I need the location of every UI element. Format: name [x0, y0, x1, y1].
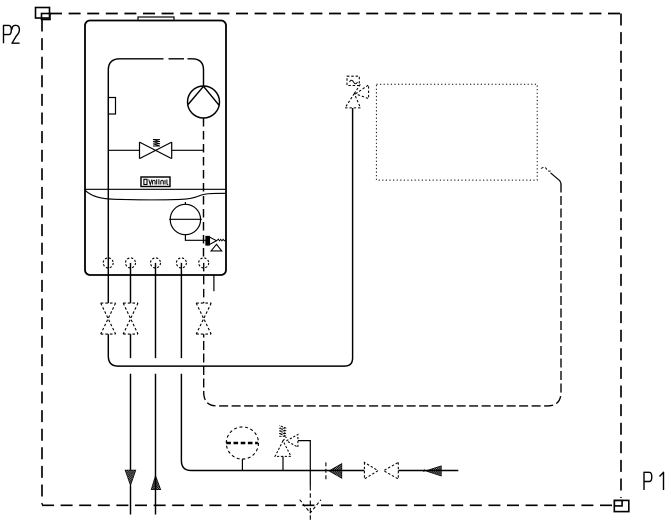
filling loop pump (dashed circle) — [226, 427, 258, 471]
internal safety valve piping — [185, 235, 207, 241]
shutoff valve on water feed (dashed bowtie) — [364, 462, 398, 479]
flow arrow left 2 (crosshatched) — [426, 466, 442, 476]
discharge dashed drop to drain — [309, 486, 311, 520]
pipe 1: heating flow down from boiler — [107, 258, 109, 303]
heating zone (dotted rectangle) — [376, 84, 537, 180]
flow arrow down on pipe 2 (crosshatched) — [125, 470, 136, 485]
internal pipe loop (flow) — [108, 59, 203, 258]
solid bend into zone return — [551, 173, 562, 185]
shutoff valve V1 (dashed bowtie) — [101, 303, 116, 334]
supply boundary tick — [325, 462, 327, 479]
safety group inlet stub — [282, 456, 284, 470]
boiler panel wavy line — [85, 190, 226, 199]
expansion vessel — [169, 202, 202, 235]
safety valve discharge stub — [213, 275, 215, 291]
node P1 label — [644, 472, 664, 490]
shutoff valve V3 (dashed bowtie) — [196, 303, 211, 334]
bypass valve piping — [108, 149, 203, 151]
shutoff valve V2 (dashed bowtie) — [123, 303, 138, 334]
pipe 3: return from system up — [155, 263, 157, 515]
sensor pocket on left pipe — [108, 98, 115, 115]
flex connector squiggle at zone return — [541, 167, 551, 171]
bypass valve spring — [153, 139, 160, 146]
flow arrow left 1 (crosshatched) — [329, 464, 342, 479]
sensor squiggle in actuator box — [350, 80, 358, 84]
boiler flue stub — [138, 17, 174, 21]
internal safety valve — [206, 236, 226, 251]
pipe 4: cold water feed — [181, 263, 458, 471]
pump (internal) — [188, 86, 220, 118]
safety group discharge line — [298, 441, 310, 486]
node P1 marker — [614, 500, 629, 511]
node P2 label — [4, 25, 20, 43]
pipe 5: dashed return pipe from boiler — [203, 263, 205, 303]
node P2 marker — [36, 8, 51, 20]
drain funnel — [300, 500, 321, 513]
pipe 1 continuation to heating circuit — [108, 108, 352, 366]
boiler outline — [85, 21, 226, 276]
pipe 2: down through border (flow to system) — [130, 263, 132, 515]
bypass overflow valve — [140, 142, 172, 159]
safety group (dashed) — [275, 425, 298, 456]
boiler connection circles — [103, 258, 209, 268]
boiler panel separator line — [85, 188, 226, 190]
Vaillant logo box — [141, 177, 170, 187]
dashed return loop to heating zone — [204, 184, 561, 406]
zone valve with actuator (dashed) — [345, 76, 369, 108]
dashed internal pipe below pump — [203, 118, 205, 258]
flow arrow up on pipe 3 (crosshatched) — [151, 475, 161, 489]
